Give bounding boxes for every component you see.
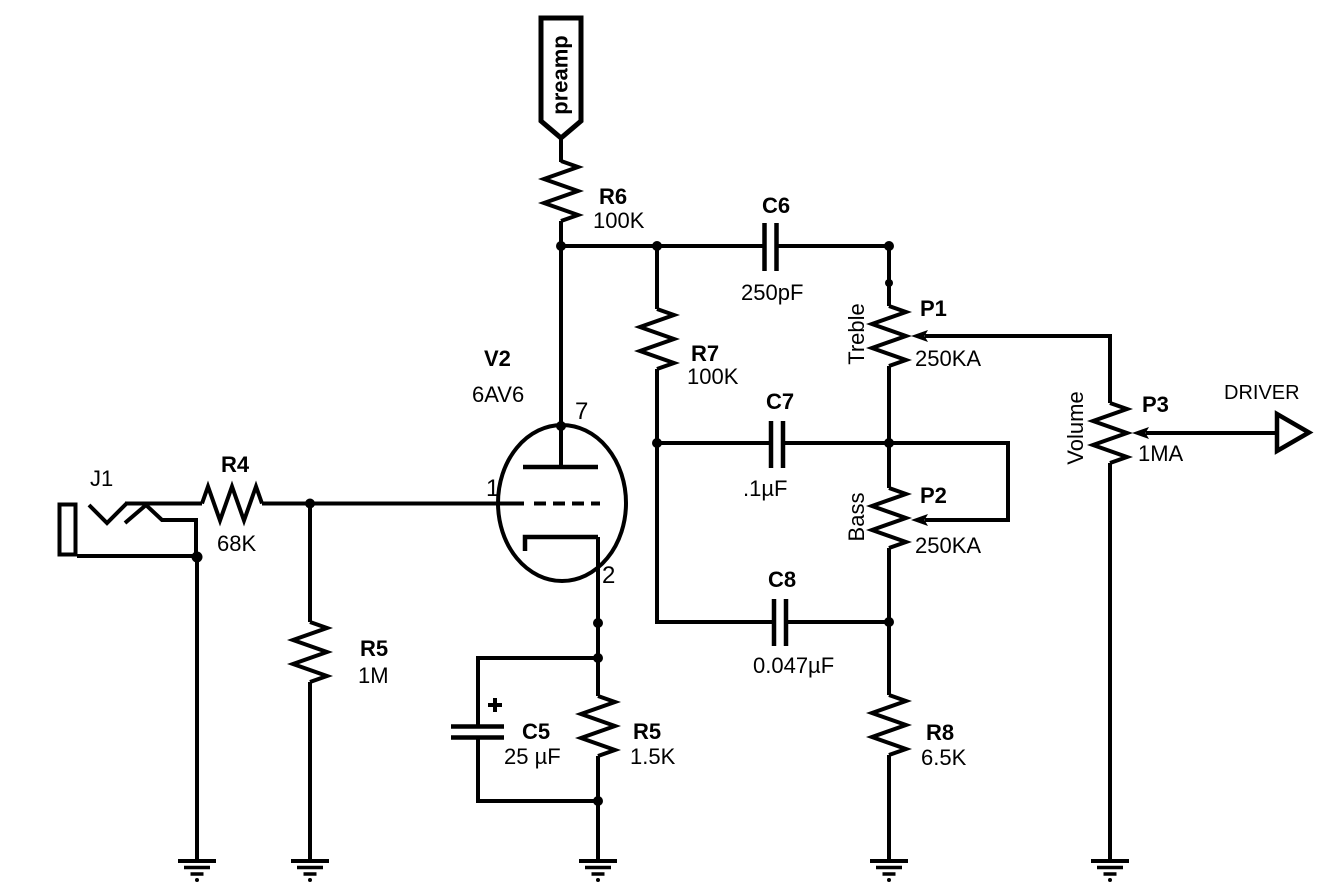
- svg-text:0.047µF: 0.047µF: [753, 653, 834, 678]
- wire node to C6 left: [561, 244, 763, 248]
- svg-text:R7: R7: [691, 341, 719, 366]
- svg-text:250KA: 250KA: [915, 346, 981, 371]
- connector DRIVER output: [1224, 382, 1309, 451]
- svg-text:100K: 100K: [593, 208, 645, 233]
- pin 7 junction dot: [556, 421, 566, 431]
- svg-text:25 µF: 25 µF: [504, 744, 561, 769]
- wire C8 right: [788, 620, 889, 624]
- resistor R4: [202, 452, 262, 556]
- svg-text:7: 7: [575, 398, 588, 425]
- wire P2 bottom to C8 node: [887, 548, 891, 622]
- svg-text:C5: C5: [522, 719, 550, 744]
- wire R7 bottom to C7 node: [655, 369, 659, 443]
- svg-text:1.5K: 1.5K: [630, 744, 676, 769]
- wire R5 to ground: [308, 682, 312, 861]
- wire P3 bottom to ground: [1108, 463, 1112, 861]
- node junction P1 upper: [885, 279, 893, 287]
- node C7 left dot: [652, 438, 662, 448]
- svg-text:1: 1: [486, 475, 499, 502]
- node jack sleeve junction: [192, 552, 203, 563]
- pin 7 label: [575, 398, 588, 425]
- resistor R5 (cathode 1.5K): [581, 696, 676, 769]
- ground (grid R5): [291, 861, 329, 882]
- svg-text:6.5K: 6.5K: [921, 745, 967, 770]
- tube cathode: [525, 537, 598, 551]
- node C8 right dot: [884, 617, 894, 627]
- resistor R6: [544, 161, 645, 233]
- wire P3 wiper to driver connector: [1146, 431, 1277, 435]
- svg-text:C6: C6: [762, 193, 790, 218]
- wire jack sleeve to ground: [195, 557, 199, 861]
- wire P2 top lead: [887, 443, 891, 488]
- wire R4 to tube grid pin 1: [262, 502, 524, 506]
- svg-text:R6: R6: [599, 184, 627, 209]
- pin 1 label: [486, 475, 499, 502]
- node R4/R5 junction: [305, 499, 315, 509]
- wire P1 top lead: [887, 246, 891, 306]
- wire R6 to node: [559, 221, 563, 246]
- pin 2 junction dot: [593, 618, 603, 628]
- svg-text:Treble: Treble: [844, 303, 869, 365]
- capacitor C5 (electrolytic): [451, 719, 561, 769]
- svg-text:R8: R8: [926, 720, 954, 745]
- wire C7 node down to C8 corner: [655, 443, 659, 624]
- wire flag to R6: [559, 136, 563, 162]
- potentiometer P1 Treble: [844, 296, 981, 371]
- wire node down to tube plate: [559, 246, 563, 467]
- wire R5 bottom to ground: [596, 756, 600, 861]
- capacitor C6: [741, 193, 803, 305]
- svg-text:1MA: 1MA: [1138, 441, 1184, 466]
- connector J1 (input jack): [60, 466, 199, 558]
- svg-text:C7: C7: [766, 389, 794, 414]
- wire C5 bottom: [478, 737, 598, 801]
- resistor R7: [640, 309, 739, 389]
- svg-text:6AV6: 6AV6: [472, 382, 524, 407]
- resistor R8: [872, 695, 967, 770]
- svg-text:100K: 100K: [687, 364, 739, 389]
- potentiometer P3 Volume: [1063, 391, 1184, 466]
- node junction C6/P1: [884, 241, 894, 251]
- wire C7 right: [785, 441, 889, 445]
- capacitor C7: [743, 389, 794, 501]
- node C7 right dot: [884, 438, 894, 448]
- svg-text:250KA: 250KA: [915, 533, 981, 558]
- node junction R6/C6: [556, 241, 566, 251]
- wire C6 right to P1 top node: [777, 244, 889, 248]
- wire R7 top lead: [655, 246, 659, 309]
- svg-text:P1: P1: [920, 296, 947, 321]
- svg-text:R5: R5: [360, 636, 388, 661]
- ground (R8): [870, 861, 908, 882]
- svg-text:R4: R4: [221, 452, 250, 477]
- wire node down to R5: [308, 504, 312, 623]
- wire C5 branch top: [478, 658, 598, 726]
- svg-text:2: 2: [602, 562, 615, 589]
- svg-text:DRIVER: DRIVER: [1224, 382, 1300, 404]
- wire cathode down to C5/R5 node: [596, 537, 600, 696]
- node C5 branch dot: [593, 653, 603, 663]
- svg-text:1M: 1M: [358, 663, 389, 688]
- wire R8 top lead: [887, 622, 891, 695]
- svg-text:V2: V2: [484, 346, 511, 371]
- svg-text:R5: R5: [633, 719, 661, 744]
- node junction R7 top: [652, 241, 662, 251]
- node C5/R5 bottom dot: [593, 796, 603, 806]
- pin 2 label: [602, 562, 615, 589]
- capacitor C8: [753, 567, 834, 678]
- C5 polarity +: [488, 698, 502, 712]
- vacuum tube V2 6AV6 envelope: [472, 346, 626, 581]
- svg-text:68K: 68K: [217, 531, 256, 556]
- tube plate (anode): [523, 465, 598, 470]
- svg-text:Bass: Bass: [844, 493, 869, 542]
- svg-text:P3: P3: [1142, 392, 1169, 417]
- svg-text:preamp: preamp: [548, 35, 573, 114]
- wire jack to R4: [125, 502, 202, 506]
- net flag "preamp": [541, 18, 581, 138]
- ground (jack): [178, 861, 216, 882]
- tube grid (dashed): [534, 502, 600, 506]
- wire P1 bottom to C7 node: [887, 366, 891, 443]
- svg-text:J1: J1: [90, 466, 113, 491]
- wire P1 wiper to P3: [925, 336, 1110, 403]
- svg-text:250pF: 250pF: [741, 280, 803, 305]
- svg-text:P2: P2: [920, 483, 947, 508]
- resistor R5 (grid 1M): [293, 622, 389, 688]
- ground (cathode): [579, 861, 617, 882]
- ground (P3): [1091, 861, 1129, 882]
- svg-text:.1µF: .1µF: [743, 476, 787, 501]
- wire C7 node to P2 wiper loop: [889, 443, 1008, 520]
- svg-text:Volume: Volume: [1063, 391, 1088, 464]
- svg-text:C8: C8: [768, 567, 796, 592]
- wire C8 left: [657, 620, 772, 624]
- potentiometer P2 Bass: [844, 483, 981, 558]
- wire C7 left: [657, 441, 769, 445]
- wire R8 to ground: [887, 755, 891, 861]
